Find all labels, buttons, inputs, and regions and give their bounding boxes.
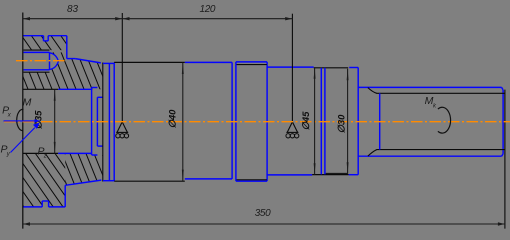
bolt top edge [24, 51, 50, 53]
axial force arrowhead [35, 119, 41, 122]
thread boundary line [379, 93, 381, 149]
collar left face [91, 88, 93, 156]
arrow 120 left [123, 17, 130, 20]
diameter dimension shaft end [54, 89, 56, 153]
thread runout bottom [368, 150, 377, 157]
svg-text:M: M [23, 97, 32, 109]
torque arc right [438, 107, 451, 133]
end chamfer top [502, 87, 504, 90]
section B2 bottom edge [185, 178, 232, 180]
shaft end bottom edge thin part [23, 152, 58, 154]
chuck top notch left wall [43, 36, 45, 41]
section B2 right face [231, 62, 233, 178]
ring bottom edge [103, 180, 114, 182]
section D bottom edge [267, 174, 312, 176]
collar C left face [235, 62, 237, 181]
journal D2 top edge thin [314, 67, 349, 69]
extension line support B [291, 14, 293, 122]
arrow 120 right [285, 17, 292, 20]
collar F bottom edge [349, 174, 359, 176]
svg-text:83: 83 [67, 4, 79, 15]
svg-text:∅40: ∅40 [167, 109, 178, 129]
main axis centerline [4, 121, 510, 123]
collar E right face [324, 68, 326, 175]
diameter dimension journal D2 [347, 69, 349, 174]
collar C right face [266, 62, 268, 181]
collar bottom edge [92, 154, 98, 156]
svg-text:∅30: ∅30 [336, 114, 347, 134]
chuck top notch right wall [47, 36, 49, 41]
bolt hole thread line bottom [24, 71, 50, 73]
ring top edge [103, 62, 114, 64]
bolt rounded tip [50, 53, 59, 70]
arrow 350 right [498, 222, 505, 225]
chuck bottom notch left wall [41, 201, 43, 207]
chuck bottom edge right [49, 206, 66, 208]
arrow 83 left [23, 17, 30, 20]
support (bearing) B [286, 122, 299, 138]
bolt shank face [49, 52, 51, 69]
thread minor top line [377, 92, 505, 94]
shoulder face of journal B [113, 62, 115, 181]
svg-text:∅45: ∅45 [301, 111, 312, 131]
hatching chuck lower block [0, 0, 122, 235]
extension line right end [504, 90, 506, 229]
bolt hole thread line top [24, 49, 50, 51]
section B2 top edge [185, 61, 232, 63]
end chamfer bottom [502, 154, 504, 156]
collar F right face shoulder [357, 68, 359, 175]
chuck step horizontal [67, 58, 75, 60]
axial force arrow line P [4, 120, 35, 122]
hatching cone part lower [0, 0, 135, 235]
shaft end bottom edge [58, 152, 91, 154]
radial force arrowhead [33, 123, 40, 129]
extension line left / chuck face [22, 13, 24, 229]
collar F top edge [349, 67, 358, 69]
shaft end top edge [58, 88, 91, 90]
chuck top edge [23, 35, 44, 37]
collar C top chamfer line [237, 64, 267, 66]
neck step face [96, 97, 98, 146]
svg-text:350: 350 [255, 208, 271, 219]
journal D2 bottom second thin line [326, 172, 348, 174]
collar C bottom edge [236, 180, 267, 182]
chuck bottom notch top [42, 200, 48, 202]
chuck bottom notch right wall [48, 201, 50, 207]
collar C bottom chamfer line [237, 179, 267, 181]
bolt axis centerline [16, 60, 66, 62]
diameter dimension journal B [182, 63, 184, 182]
hatching cone part upper [0, 0, 175, 235]
chuck lower taper [65, 180, 101, 185]
collar C top edge [236, 61, 267, 63]
radial force arrow line P [11, 128, 35, 153]
thread minor bottom line [377, 149, 505, 151]
collar top edge [92, 87, 98, 89]
chuck right face thin line [102, 63, 104, 182]
journal B top edge thin [114, 61, 185, 63]
neck top edge [97, 96, 102, 98]
thread major bottom edge [358, 155, 501, 157]
support (bearing) A [116, 122, 129, 138]
arrow 83 right [115, 17, 122, 20]
neck bottom edge [97, 145, 102, 147]
bolt bottom edge [24, 69, 50, 71]
journal D2 bottom edge thin [312, 174, 349, 176]
chuck upper taper [75, 59, 101, 63]
hatching chuck block above bolt [0, 0, 200, 235]
diameter dimension section D [314, 67, 316, 175]
section D top edge [267, 66, 314, 68]
journal B bottom edge thin [114, 180, 185, 182]
shaft end face [502, 90, 504, 154]
chuck bottom edge left [23, 206, 42, 208]
shaft end top edge thin part [23, 88, 58, 90]
extension line support A [121, 13, 123, 122]
arrow 350 left [23, 222, 30, 225]
collar E left face [320, 68, 322, 175]
chuck bottom step face [64, 185, 66, 207]
dimension line 350 [23, 223, 505, 225]
torque arc left [17, 109, 24, 130]
thread major top edge [358, 86, 501, 88]
svg-text:z: z [43, 154, 47, 160]
svg-text:120: 120 [200, 4, 216, 15]
dimension line 83 and 120 [23, 18, 293, 20]
ring divider [108, 63, 110, 180]
chuck top step face [66, 36, 68, 59]
thread runout top [368, 88, 377, 94]
chuck top notch bottom [44, 40, 49, 42]
chuck top edge right part [48, 35, 67, 37]
